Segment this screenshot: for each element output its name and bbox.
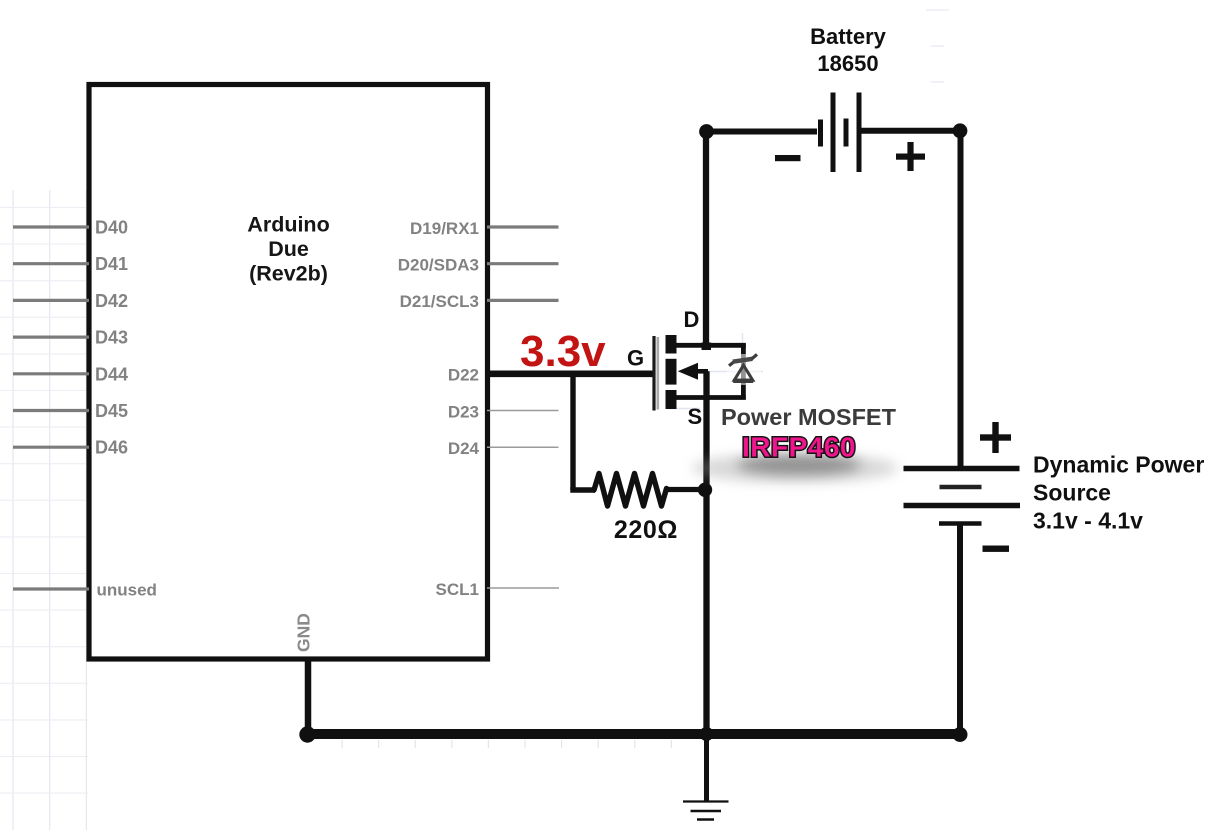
pin D21/SCL3 wire (487, 299, 559, 302)
IRFP460 shadow smudge core (737, 455, 861, 475)
MOSFET Q1 source connection wire (676, 395, 746, 400)
svg-text:3.1v - 4.1v: 3.1v - 4.1v (1033, 508, 1143, 534)
pin D42 wire (13, 299, 89, 302)
pin D23 wire (487, 410, 559, 412)
svg-text:D20/SDA3: D20/SDA3 (398, 256, 479, 275)
dynamic power source V2 minus sign (983, 546, 1010, 552)
GND pin wire (305, 660, 312, 735)
svg-text:S: S (688, 404, 703, 429)
battery B1 top wire left segment (707, 129, 818, 135)
wire battery negative to MOSFET drain (703, 132, 709, 346)
battery B1 minus sign (775, 155, 801, 161)
svg-text:D: D (684, 307, 700, 332)
svg-text:D21/SCL3: D21/SCL3 (400, 292, 479, 311)
svg-text:Due: Due (268, 237, 309, 261)
svg-text:(Rev2b): (Rev2b) (249, 262, 328, 286)
body diode D1 backdrop (727, 354, 761, 385)
battery B1 18650 plates (821, 93, 860, 173)
dynamic power source V2 plates (904, 469, 1021, 524)
dynamic power source V2 label (1033, 452, 1204, 534)
pin D20/SDA3 wire (487, 262, 559, 265)
svg-text:D22: D22 (448, 366, 479, 385)
pin D24 wire (487, 446, 559, 448)
svg-text:Arduino: Arduino (247, 213, 329, 237)
svg-text:D24: D24 (448, 439, 480, 458)
svg-text:220Ω: 220Ω (614, 516, 678, 544)
wire source down to bus (703, 371, 709, 734)
battery B1 plus sign (896, 142, 925, 171)
MOSFET Q1 body arrow wire (694, 369, 708, 374)
IC name label Arduino Due (Rev2b) (247, 213, 329, 286)
MOSFET Q1 gate line (652, 336, 655, 411)
svg-text:unused: unused (97, 581, 157, 600)
svg-text:GND: GND (294, 613, 314, 652)
pin SCL1 wire (487, 587, 559, 589)
ground stem wire (704, 734, 709, 801)
svg-text:D43: D43 (95, 328, 128, 348)
svg-text:D42: D42 (95, 291, 128, 311)
junction dot battery positive (953, 123, 968, 138)
battery B1 label (810, 24, 887, 76)
svg-text:Source: Source (1033, 480, 1111, 506)
svg-text:3.3v: 3.3v (520, 327, 606, 376)
wire V2 to ground bus (957, 524, 963, 735)
svg-text:D46: D46 (95, 438, 128, 458)
svg-text:G: G (627, 346, 644, 371)
pin D46 wire (13, 446, 89, 449)
pin D41 wire (13, 262, 89, 265)
pin D40 wire (13, 225, 89, 228)
MOSFET Q1 body diode loop wire (741, 344, 746, 400)
svg-text:D41: D41 (95, 254, 128, 274)
svg-text:18650: 18650 (817, 51, 878, 76)
wire resistor to source (665, 487, 703, 492)
battery B1 top wire right segment (862, 128, 961, 134)
body diode D1 (zener) (729, 354, 757, 380)
junction dot bus / MOSFET source (700, 727, 714, 741)
svg-text:IRFP460: IRFP460 (742, 432, 856, 463)
svg-text:D44: D44 (95, 364, 128, 384)
wire battery positive down to V2 (958, 131, 964, 468)
svg-text:Power MOSFET: Power MOSFET (721, 404, 897, 430)
MOSFET Q1 body arrow head (678, 363, 698, 380)
pin unused wire (13, 587, 89, 590)
junction dot battery negative (699, 124, 714, 139)
svg-text:Dynamic Power: Dynamic Power (1033, 452, 1204, 478)
IRFP460 shadow smudge wide (692, 453, 898, 483)
pin D43 wire (13, 336, 89, 339)
resistor R1 zigzag (594, 474, 667, 507)
svg-text:SCL1: SCL1 (436, 580, 479, 599)
svg-text:D45: D45 (95, 401, 128, 421)
Arduino Due IC body U1 (89, 85, 488, 660)
dynamic power source V2 plus sign (980, 422, 1011, 453)
wire gate branch vertical (570, 374, 575, 490)
pin D44 wire (13, 372, 89, 375)
drain junction bulge (702, 343, 712, 351)
svg-text:D23: D23 (448, 402, 479, 421)
ground symbol (683, 802, 729, 820)
wire branch to resistor (570, 487, 595, 492)
MOSFET Q1 drain connection wire (676, 343, 746, 348)
junction dot GND pin (299, 726, 315, 742)
MOSFET Q1 gate line echo (656, 337, 659, 410)
pin D19/RX1 wire (487, 225, 559, 228)
wire D22 to gate (487, 370, 655, 377)
junction dot resistor / source net (698, 483, 712, 497)
junction dot bus right / battery V2 (953, 727, 968, 742)
svg-text:D19/RX1: D19/RX1 (410, 219, 479, 238)
pin D45 wire (13, 409, 89, 412)
ground bus wire (308, 729, 961, 739)
svg-text:D40: D40 (95, 218, 128, 238)
svg-text:Battery: Battery (810, 24, 887, 49)
MOSFET Q1 channel bars (666, 335, 677, 409)
